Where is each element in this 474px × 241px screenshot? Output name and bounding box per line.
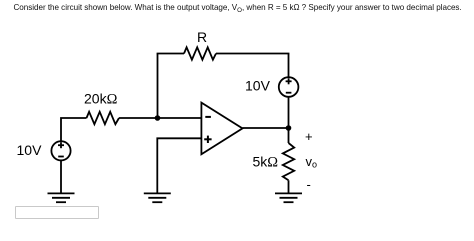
- op-amp U1: [201, 103, 242, 155]
- voltage source V2 (10V right): [279, 77, 299, 97]
- svg-text:vo: vo: [306, 154, 318, 170]
- svg-text:+: +: [305, 129, 313, 144]
- wire: left source to ground: [60, 160, 62, 193]
- resistor R: [184, 47, 216, 59]
- wire: non-inverting input to ground: [157, 138, 201, 193]
- wire: op-amp output: [243, 127, 289, 129]
- svg-text:R: R: [197, 29, 207, 45]
- wire: left source to 20k resistor: [61, 118, 87, 141]
- wire: source V2 to output node: [288, 97, 290, 128]
- wire: right vertical to source V2: [288, 54, 290, 78]
- voltage source V1 (10V left): [51, 141, 70, 160]
- wire: feedback left vertical: [157, 54, 159, 119]
- wire: top feedback left segment: [157, 53, 184, 55]
- ground (right): [275, 193, 302, 202]
- svg-text:-: -: [307, 177, 311, 192]
- node: inverting input junction: [155, 115, 161, 121]
- wire: 20k resistor to node: [119, 117, 158, 119]
- ground (left): [48, 193, 75, 202]
- resistor R3 5k vertical: [283, 143, 294, 180]
- question text: [14, 3, 462, 12]
- resistor R2 20k: [87, 112, 120, 124]
- ground (middle): [144, 193, 171, 202]
- svg-text:20kΩ: 20kΩ: [84, 91, 118, 108]
- answer input box: [15, 206, 99, 219]
- svg-text:10V: 10V: [17, 142, 43, 158]
- wire: top feedback right segment: [216, 53, 289, 55]
- svg-text:10V: 10V: [245, 78, 271, 94]
- node: output junction: [286, 125, 292, 131]
- wire: 5k resistor to ground: [288, 180, 290, 193]
- wire: output node to 5k resistor: [288, 128, 290, 143]
- wire: inverting input: [158, 117, 202, 119]
- svg-text:5kΩ: 5kΩ: [253, 154, 279, 171]
